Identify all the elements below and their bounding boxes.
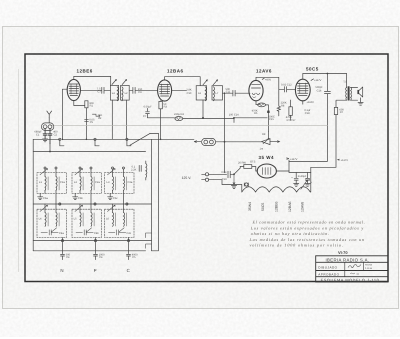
wire T2 to C11 <box>223 92 233 94</box>
coil group box N row1 <box>37 167 67 204</box>
heater chain wavy wire <box>242 187 311 192</box>
wire C11 node down to mains switch <box>224 93 226 173</box>
frame antenna coil <box>146 161 147 180</box>
wire rectifier output riser <box>288 160 290 171</box>
wire T1 pin down left <box>111 100 113 139</box>
coil group box C row2 <box>105 204 135 238</box>
coil group box C row1 <box>105 167 135 204</box>
capacitor C5 0.05 <box>85 118 95 124</box>
capacitor C10 2.8K label <box>186 89 192 95</box>
wire V3 junction down to volume pot <box>267 132 269 139</box>
label +85V <box>262 78 271 81</box>
junction dot R3 line at bus <box>160 139 162 141</box>
wire T1 pin down right <box>125 100 127 139</box>
capacitor C11 500pF <box>226 88 251 96</box>
padder capacitor 4000 (C) <box>127 251 139 260</box>
mains capacitor C19 0.04 <box>213 171 234 181</box>
frame antenna diagonal <box>130 133 150 145</box>
node contact circle 3 <box>126 138 128 140</box>
label +117V near R7 bottom <box>337 159 348 162</box>
resistor R1 <box>85 101 94 140</box>
mains switch <box>234 166 240 174</box>
dial lamps (escala) <box>202 138 216 145</box>
capacitor C2 400 <box>48 129 58 144</box>
wire V3 plate to R8 <box>256 77 279 106</box>
ground stub group N <box>38 193 49 199</box>
filter capacitor C18b <box>305 173 313 187</box>
tube V4 50C5 envelope <box>295 79 310 101</box>
junction dot R1 line at bus <box>86 139 88 141</box>
node contact circle 2 <box>94 138 96 140</box>
T1 tuning coil right <box>122 87 123 101</box>
trimmer capacitor group P <box>76 228 99 235</box>
wire mains lower to heater chain <box>213 180 242 192</box>
antenna symbol <box>47 111 52 118</box>
coil group box P row2 <box>72 204 102 238</box>
T2 adjustable-core arrow right <box>213 80 217 85</box>
title block: signature scribble <box>348 264 361 267</box>
filter capacitor C18a <box>291 173 299 187</box>
right rail of coil bank <box>151 139 153 251</box>
T1 tuning coil left <box>117 87 118 101</box>
scan noise texture <box>0 0 1 1</box>
wire V2 output to T2 <box>172 89 187 91</box>
B+ wire from R7 to heater string <box>311 115 336 173</box>
node junction on lamp bus <box>224 141 226 143</box>
capacitor C1 680pF <box>34 129 47 139</box>
title block box <box>316 256 388 282</box>
AVC line (faint) <box>50 125 327 127</box>
junction dot at C14 <box>233 117 235 119</box>
electrolytic C18 2x40uF label <box>298 175 311 181</box>
output transformer TS core <box>343 80 349 100</box>
coupling capacitor C12 to 50C5 grid <box>279 83 295 92</box>
drawing border frame <box>25 54 388 282</box>
tube V1 12BE6 envelope <box>67 79 80 100</box>
band switch top bus <box>33 138 60 140</box>
ground below C1 <box>43 139 48 142</box>
wire C2 to band switch bus <box>49 143 51 151</box>
volume potentiometer R9 <box>262 133 270 145</box>
wire heater end riser <box>310 173 312 193</box>
speaker ground <box>358 98 363 105</box>
node contact circle 1 <box>59 138 61 140</box>
T2 adjustable-core arrow left <box>203 80 207 85</box>
wire V3 cathode down to R5 <box>256 101 259 105</box>
junction dot mains switch <box>233 173 235 175</box>
ground stub group P <box>73 193 84 199</box>
antenna sockets <box>41 118 53 131</box>
TS secondary leads <box>351 87 358 100</box>
fuse choke 20mH <box>238 160 256 168</box>
node junction at V3 diode load <box>267 111 269 113</box>
pin drop C column <box>127 238 129 251</box>
T1 adjustable-core arrow right <box>122 80 126 85</box>
capacitor C7 0.05uF <box>143 105 152 118</box>
band switch bus 2 <box>33 151 145 153</box>
pin drop N column <box>61 238 63 251</box>
wire V1 plate to T1 top <box>74 76 111 85</box>
wire T2 pin down <box>202 100 204 118</box>
bottom hooks on frame antenna rail <box>146 233 152 248</box>
T1 adjustable-core arrow left <box>112 80 116 85</box>
padder capacitor 500 (N) <box>61 251 71 260</box>
capacitor C9 150pF <box>133 87 157 93</box>
capacitor C1 (7.5pF) <box>97 87 111 93</box>
junction dot C2 at bus2 <box>49 151 51 153</box>
trimmer capacitor group N <box>41 228 64 235</box>
middle bus contact 3 <box>126 203 128 205</box>
detector line wire <box>148 117 175 119</box>
label +117V plate <box>311 79 322 82</box>
switch arrow across filter <box>301 180 307 189</box>
T2 tuning coil left <box>205 87 206 101</box>
resistor R4 220p (ellipse) <box>174 113 184 121</box>
label +117V rectified <box>287 158 298 161</box>
cathode capacitor C13 0.1 <box>303 101 311 115</box>
dial lamp arrow <box>194 141 201 143</box>
wire AVC bus <box>62 138 194 140</box>
node junction T2 bottom <box>202 117 204 119</box>
loudspeaker <box>357 87 362 97</box>
wire V5 plate output <box>276 170 289 172</box>
capacitor C14 100 label <box>229 114 239 123</box>
frame antenna right rail <box>152 133 159 250</box>
IF transformer T2 body <box>196 86 222 100</box>
junction dot tube1 cathode at bus <box>62 139 64 141</box>
resistor R10 470K <box>286 100 296 122</box>
wire choke to V5 <box>240 167 257 172</box>
ground arrow below mains switch <box>231 174 236 188</box>
band switch bottom bus <box>33 250 145 252</box>
coil group box N row2 <box>37 204 67 238</box>
wire V2 plate to T2 top <box>165 77 201 86</box>
wire T1 secondary to C9 <box>129 89 132 91</box>
tube V3 12AV6 envelope <box>249 80 263 100</box>
wire pot output arrow <box>270 141 280 143</box>
rectifier tube V5 35W4 envelope <box>257 164 276 178</box>
coil group box P row1 <box>72 167 102 204</box>
middle bus contact 2 <box>94 203 96 205</box>
T2 tuning coil right <box>213 87 214 101</box>
wire V4 plate to output transformer <box>303 74 347 88</box>
ground stub group C <box>108 193 119 199</box>
TS secondary coil <box>350 87 353 100</box>
pin drop P column <box>94 238 96 251</box>
resistor R8 220K <box>277 102 287 116</box>
wire dial lamp to pot <box>216 141 262 143</box>
resistor R3 <box>159 101 168 139</box>
resistor R5 470K (horizontal ellipse style) <box>252 103 269 132</box>
resistor R2 21K <box>92 114 102 120</box>
TS primary bottom lead <box>336 99 347 101</box>
SCHEMATIC <box>62 67 363 173</box>
wire V1 cathode stub to R1 <box>74 101 85 106</box>
mains plug <box>202 173 214 182</box>
wire rectifier to filter caps <box>289 171 311 173</box>
trimmer capacitor group C <box>109 228 132 235</box>
band switch middle bus <box>33 203 151 205</box>
node junction below C11 <box>224 92 226 94</box>
switch wafer hook 1 <box>60 140 64 145</box>
band switch lower bus <box>33 240 151 242</box>
left rail of coil bank <box>32 139 34 251</box>
detector line wire right <box>183 117 268 120</box>
scan fold line <box>18 69 20 272</box>
padder capacitor 1000 (P) <box>94 251 106 260</box>
frame antenna trimmer <box>131 165 141 171</box>
pilot fuse on mains lower wire <box>244 183 248 186</box>
middle bus contact 1 <box>59 203 61 205</box>
switch wafer hook 3 <box>127 140 131 145</box>
wire V2 cathode to R3 <box>160 100 162 103</box>
tone capacitor C16 500pF <box>289 73 330 162</box>
TS primary coil <box>345 87 348 100</box>
wire V1 grid left <box>62 89 67 139</box>
switch wafer hook 2 <box>95 140 99 145</box>
frame antenna top link <box>150 132 158 134</box>
wire V1 output to C1 <box>80 89 101 91</box>
title block: aprobado mark <box>350 273 359 274</box>
capacitor C15 500pF label <box>269 115 275 121</box>
wire TS bottom to R7 <box>335 100 337 102</box>
tube V2 12BA6 envelope <box>158 80 172 101</box>
IF transformer T1 body <box>110 85 129 100</box>
resistor R7 600ohm under TS <box>334 101 344 115</box>
